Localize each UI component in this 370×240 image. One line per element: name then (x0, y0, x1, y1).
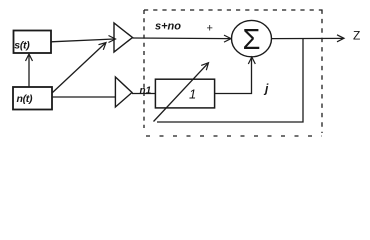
svg-text:+: + (207, 22, 213, 34)
svg-text:Σ: Σ (243, 24, 261, 56)
arrowhead into amplifier A1 (109, 36, 116, 43)
svg-text:Z: Z (353, 29, 360, 43)
dashed enclosure top edge (144, 9, 323, 11)
arrowhead output (337, 35, 344, 42)
amplifier A2 triangle (115, 77, 132, 107)
arrowhead into summer bottom (248, 57, 255, 64)
arrowhead of diagonal (99, 43, 107, 50)
gain box G1 (155, 79, 214, 108)
wire n(t) diagonal to A1 input (52, 43, 105, 93)
gain control diagonal arrow (154, 64, 208, 122)
arrowhead into s(t) (26, 54, 33, 61)
block n(t) box (13, 87, 52, 110)
dashed enclosure left edge (143, 10, 145, 128)
block s(t) box (14, 31, 52, 54)
svg-text:n(t): n(t) (17, 93, 34, 105)
wire n(t) to amplifier A2 (52, 96, 115, 98)
wire s(t) to amplifier A1 (51, 39, 114, 42)
wire n(t) up to s(t) (28, 55, 30, 87)
svg-text:s+no: s+no (155, 21, 181, 33)
dashed enclosure right edge (321, 10, 323, 134)
arrowhead of gain control (201, 63, 208, 70)
wire A2 to gain box (132, 93, 155, 95)
svg-text:1: 1 (189, 87, 196, 102)
amplifier A1 triangle (114, 23, 133, 52)
feedback wire down and left (157, 39, 303, 122)
svg-text:s(t): s(t) (14, 39, 30, 51)
summer U1 circle (232, 20, 272, 56)
svg-text:n1: n1 (140, 86, 152, 97)
svg-text:j: j (263, 82, 269, 96)
wire gain box to summer bottom (215, 58, 252, 94)
arrowhead into summer left (224, 35, 231, 42)
wire A1 to summer (133, 37, 231, 40)
wire summer to output Z (272, 37, 344, 39)
dashed enclosure bottom edge (146, 135, 322, 137)
